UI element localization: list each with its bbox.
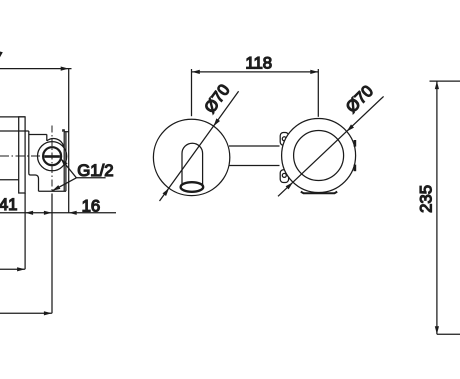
dimension line 235 bbox=[436, 81, 438, 334]
G1/2 leader arrow upper bbox=[61, 159, 68, 167]
svg-text:16: 16 bbox=[82, 196, 101, 215]
arrow 16 left bbox=[44, 211, 52, 215]
extension line x=52.0 lower bbox=[51, 194, 53, 314]
left escutcheon circle bbox=[153, 119, 229, 195]
spout slot bbox=[182, 143, 203, 184]
dimension line top-left (cropped) bbox=[0, 68, 72, 70]
arrowhead top-left dim bbox=[61, 67, 69, 71]
svg-text:235: 235 bbox=[417, 185, 436, 213]
extension line 118 right bbox=[317, 69, 319, 117]
bottom bracket flat bbox=[301, 192, 337, 194]
svg-text:41: 41 bbox=[0, 195, 17, 214]
extension line x=68.7 (wall face) bbox=[68, 69, 70, 213]
port outer circle bbox=[38, 142, 67, 171]
arrow 235 top bbox=[435, 81, 439, 89]
right mounting lug bottom bbox=[280, 170, 288, 183]
right diameter arrow upper bbox=[347, 124, 354, 131]
arrow 235 bottom bbox=[435, 326, 439, 334]
G1/2 leader to outlet bbox=[52, 178, 76, 191]
svg-text:118: 118 bbox=[245, 53, 272, 72]
side view: boss arc bbox=[47, 139, 64, 147]
spout mouth ellipse bbox=[181, 182, 204, 192]
side view: collar inner edge bbox=[28, 131, 30, 174]
svg-text:Ø70: Ø70 bbox=[201, 81, 234, 116]
side view: housing top edge bbox=[0, 116, 25, 118]
right escutcheon inner circle bbox=[294, 131, 344, 181]
dimension line 41/16 bbox=[0, 212, 116, 214]
side view: body top bbox=[29, 134, 47, 136]
right lug top screw bbox=[282, 137, 286, 141]
side view: housing bore top bbox=[0, 130, 29, 132]
extension line x=24.4 lower bbox=[24, 193, 26, 269]
port vertical centerline bbox=[51, 126, 53, 193]
arrow 16 right bbox=[69, 211, 77, 215]
side view: wall line 2 bbox=[65, 132, 67, 192]
arrow y=313 bbox=[44, 311, 52, 315]
right lug bottom screw bbox=[282, 173, 286, 177]
right diameter arrow lower bbox=[286, 182, 293, 189]
left diameter arrow lower bbox=[163, 188, 170, 196]
port inner circle (thread) bbox=[43, 147, 61, 165]
horizontal centerline bbox=[0, 155, 44, 157]
side view: bottom notch bbox=[29, 174, 39, 192]
side view: wall top bbox=[64, 131, 69, 133]
connecting bar top bbox=[229, 145, 280, 147]
side view: wall line 1 bbox=[63, 132, 65, 192]
side view: body bottom bbox=[39, 190, 67, 192]
port screw slot bbox=[44, 155, 60, 158]
right escutcheon outer circle bbox=[282, 119, 356, 193]
extension line 118 left bbox=[191, 69, 193, 116]
left diameter arrow upper bbox=[214, 118, 221, 126]
arrow 118 left bbox=[192, 70, 200, 74]
dimension line 118 bbox=[192, 71, 318, 73]
side view: housing bore bottom bbox=[0, 179, 19, 181]
right edge tab upper bbox=[354, 140, 357, 147]
side view: wall tab bbox=[63, 130, 64, 132]
left diameter leader line bbox=[160, 91, 239, 201]
extension line 235 top bbox=[430, 80, 460, 82]
extension line 235 bottom bbox=[437, 333, 460, 335]
dimension line y=313 (cropped) bbox=[0, 312, 52, 314]
arrow y=269 bbox=[17, 267, 25, 271]
dimension line y=269 (cropped) bbox=[0, 268, 25, 270]
svg-text:Ø70: Ø70 bbox=[343, 82, 377, 116]
arrow 41 right bbox=[25, 211, 33, 215]
right diameter leader line bbox=[278, 96, 384, 196]
side view: flange plate bbox=[19, 117, 25, 193]
G1/2 leader arrow lower bbox=[52, 185, 60, 191]
right edge tab lower bbox=[354, 165, 357, 172]
G1/2 underline bbox=[76, 177, 105, 179]
arrow fragment top-left corner bbox=[0, 52, 3, 58]
connecting bar bottom bbox=[229, 165, 280, 167]
arrow 118 right bbox=[310, 70, 318, 74]
side view: boss edge bbox=[46, 134, 48, 141]
G1/2 leader to port bbox=[61, 159, 77, 178]
svg-text:G1/2: G1/2 bbox=[77, 161, 113, 180]
right mounting lug top bbox=[280, 133, 288, 146]
